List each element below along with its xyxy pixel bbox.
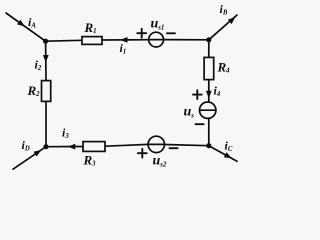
- plus sign of us1: [137, 29, 146, 38]
- current arrow iD (points into node D): [34, 150, 42, 157]
- wire: R1 to source us1: [102, 39, 149, 41]
- wire: node B to R4: [208, 40, 210, 58]
- wire: lead out of node C (diagonal, bottom-right): [209, 146, 237, 162]
- resistor R2: [42, 81, 51, 102]
- wire through us2: [148, 143, 165, 145]
- current arrow iA (points into node A): [17, 20, 25, 27]
- wire: R2 to node D: [45, 101, 47, 146]
- wire: lead out of node B (diagonal, top-right): [209, 15, 237, 40]
- node D (junction dot): [43, 144, 48, 149]
- voltage source us2: [148, 136, 164, 152]
- minus sign of us2: [170, 147, 178, 149]
- current arrow i3 (points left): [68, 144, 76, 150]
- minus sign of us1: [167, 32, 175, 34]
- wire: node A to R2: [45, 41, 47, 80]
- plus sign of us3: [193, 90, 202, 99]
- wire: lead into node A (diagonal, top-left): [6, 13, 46, 41]
- node B (junction dot): [206, 37, 211, 42]
- node A (junction dot): [43, 39, 48, 44]
- wire: us3 to node C: [208, 118, 210, 145]
- current arrow iB (points away from node B): [228, 17, 236, 24]
- node C (junction dot): [206, 143, 211, 148]
- bar inside us3: [200, 109, 216, 111]
- voltage source us3: [200, 102, 216, 118]
- current arrow i1 (points left): [120, 37, 128, 43]
- plus sign of us2: [138, 149, 147, 158]
- resistor R1: [82, 37, 102, 45]
- resistor R4: [204, 57, 214, 79]
- current arrow i2 (points down): [43, 55, 49, 63]
- wire through us1: [149, 39, 164, 41]
- wire: lead into node D (diagonal, bottom-left): [13, 147, 46, 170]
- wire: R3 to node D: [46, 146, 83, 148]
- wire: node C to source us2: [165, 145, 209, 146]
- wire: node A to R1: [46, 39, 82, 42]
- wire: us1 to node B: [164, 39, 209, 41]
- current arrow iC (points away from node C): [224, 152, 232, 158]
- minus sign of us3: [196, 123, 204, 125]
- resistor R3: [83, 142, 105, 152]
- wire: us2 to R3: [105, 144, 148, 146]
- current arrow i4 (points down): [206, 91, 212, 99]
- wire: R4 to source us3: [208, 80, 210, 102]
- voltage source us1: [149, 32, 164, 47]
